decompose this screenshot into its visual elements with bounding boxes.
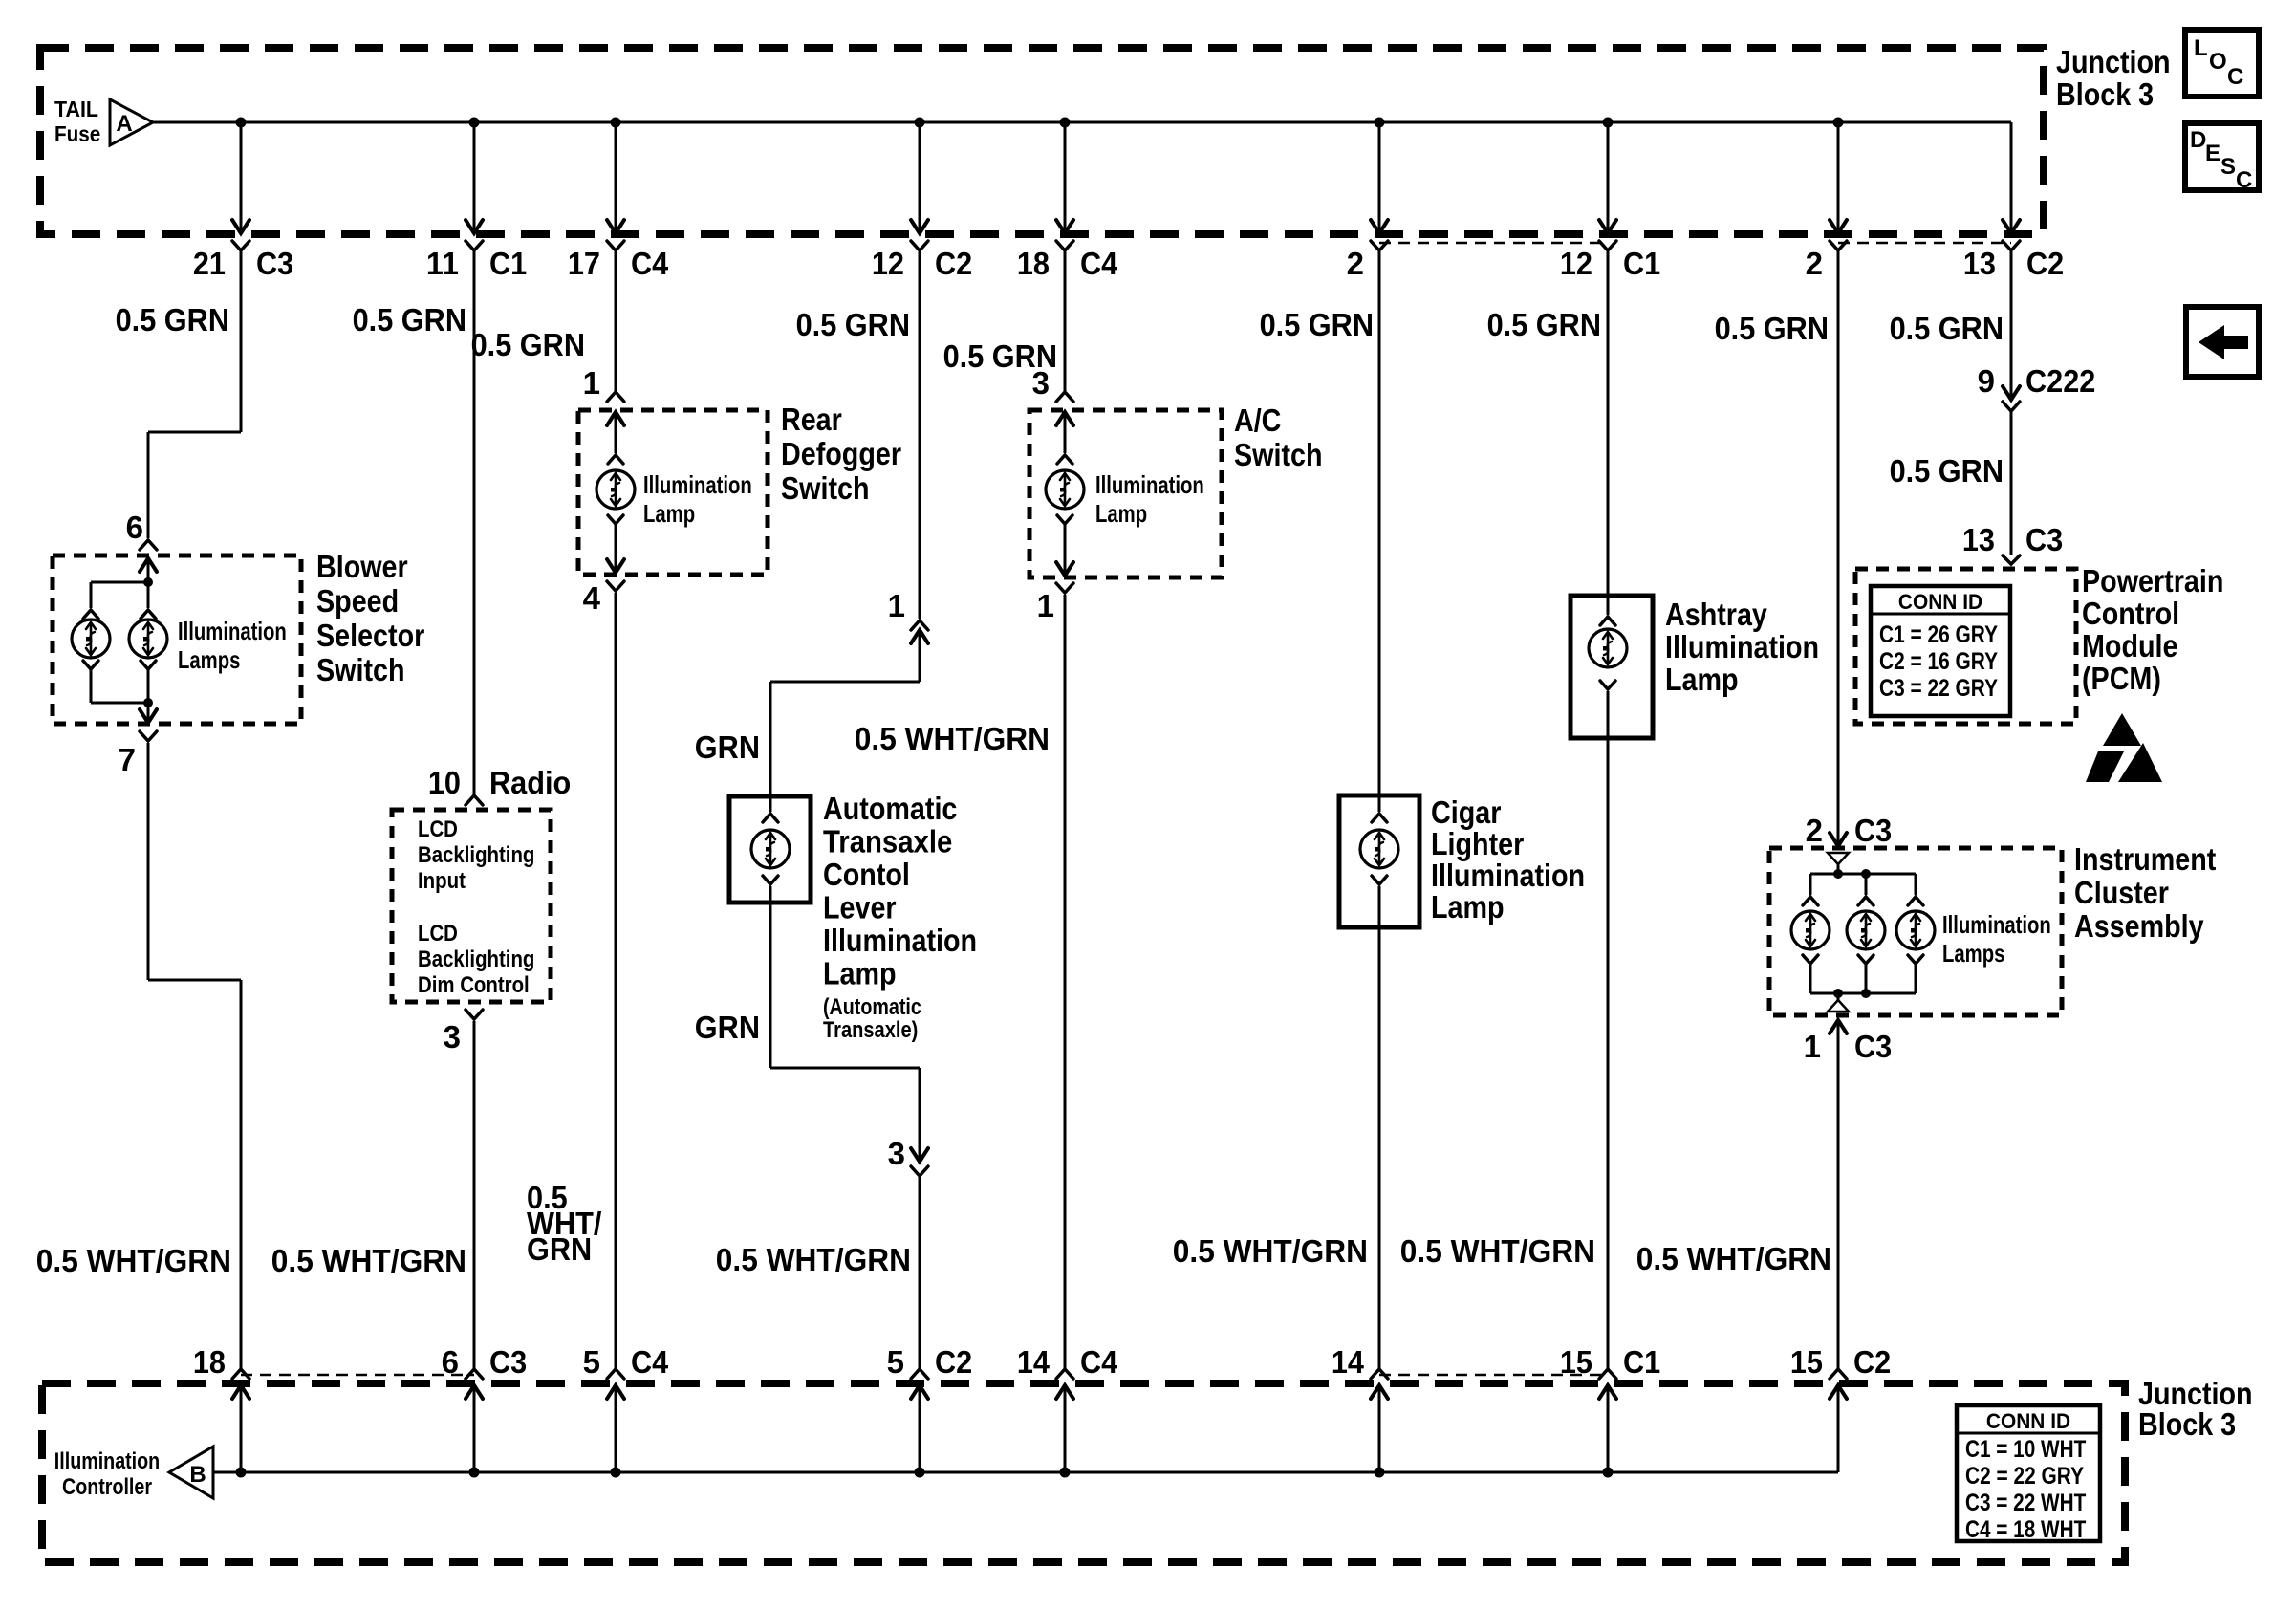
svg-text:0.5 GRN: 0.5 GRN xyxy=(353,302,466,337)
svg-text:C222: C222 xyxy=(2025,363,2095,399)
svg-text:0.5 WHT/GRN: 0.5 WHT/GRN xyxy=(1400,1233,1595,1269)
svg-text:Illumination: Illumination xyxy=(54,1448,160,1474)
svg-text:Ashtray: Ashtray xyxy=(1665,597,1767,632)
svg-text:0.5 WHT/GRN: 0.5 WHT/GRN xyxy=(1636,1241,1831,1276)
svg-text:0.5 WHT/GRN: 0.5 WHT/GRN xyxy=(271,1243,466,1278)
svg-text:C3: C3 xyxy=(1854,1029,1892,1064)
svg-text:C2: C2 xyxy=(2026,246,2064,281)
svg-text:C2 = 22 GRY: C2 = 22 GRY xyxy=(1965,1463,2084,1490)
svg-text:C4: C4 xyxy=(631,1344,669,1380)
svg-text:C2: C2 xyxy=(1853,1344,1891,1380)
svg-text:6: 6 xyxy=(126,510,143,545)
svg-text:CONN ID: CONN ID xyxy=(1898,590,1982,614)
svg-text:Transaxle): Transaxle) xyxy=(823,1017,918,1043)
svg-text:LCD: LCD xyxy=(418,921,458,946)
svg-text:C: C xyxy=(2227,64,2243,90)
svg-text:Radio: Radio xyxy=(489,765,571,800)
svg-text:Switch: Switch xyxy=(781,470,870,506)
svg-text:Dim Control: Dim Control xyxy=(418,972,530,998)
svg-text:0.5 WHT/GRN: 0.5 WHT/GRN xyxy=(855,721,1050,756)
svg-text:12: 12 xyxy=(872,246,904,281)
svg-text:A: A xyxy=(116,111,132,137)
svg-text:1: 1 xyxy=(583,365,600,401)
svg-text:C4: C4 xyxy=(1080,1344,1118,1380)
svg-text:0.5 GRN: 0.5 GRN xyxy=(796,307,910,342)
svg-text:1: 1 xyxy=(1037,588,1054,623)
svg-text:1: 1 xyxy=(1804,1029,1821,1064)
svg-text:17: 17 xyxy=(568,246,600,281)
svg-text:C1 = 26 GRY: C1 = 26 GRY xyxy=(1879,621,1998,648)
svg-text:11: 11 xyxy=(426,246,459,281)
svg-text:Lamp: Lamp xyxy=(1431,889,1505,925)
svg-text:7: 7 xyxy=(119,742,136,777)
svg-text:Automatic: Automatic xyxy=(823,791,957,826)
svg-text:Junction: Junction xyxy=(2056,44,2171,79)
svg-text:14: 14 xyxy=(1017,1344,1051,1380)
svg-text:0.5 WHT/GRN: 0.5 WHT/GRN xyxy=(1173,1233,1368,1269)
svg-text:C: C xyxy=(2236,167,2252,193)
svg-text:0.5 GRN: 0.5 GRN xyxy=(116,302,229,337)
svg-text:C3: C3 xyxy=(1854,813,1892,848)
svg-text:Cluster: Cluster xyxy=(2074,875,2169,910)
svg-text:Illumination: Illumination xyxy=(1942,910,2051,939)
svg-text:Illumination: Illumination xyxy=(1665,629,1819,664)
svg-text:C2 = 16 GRY: C2 = 16 GRY xyxy=(1879,648,1998,675)
svg-text:0.5 GRN: 0.5 GRN xyxy=(1487,307,1601,342)
svg-text:C3: C3 xyxy=(489,1344,527,1380)
svg-text:Blower: Blower xyxy=(316,549,408,584)
svg-text:15: 15 xyxy=(1560,1344,1592,1380)
svg-text:C1 = 10 WHT: C1 = 10 WHT xyxy=(1965,1436,2086,1463)
svg-text:Lamps: Lamps xyxy=(1942,939,2004,968)
svg-text:Instrument: Instrument xyxy=(2074,841,2216,877)
svg-text:18: 18 xyxy=(193,1344,226,1380)
svg-text:Switch: Switch xyxy=(1234,437,1323,472)
svg-text:D: D xyxy=(2190,127,2206,153)
svg-text:0.5 GRN: 0.5 GRN xyxy=(1260,307,1374,342)
svg-text:Controller: Controller xyxy=(62,1474,152,1500)
svg-text:Cigar: Cigar xyxy=(1431,794,1502,830)
svg-text:5: 5 xyxy=(583,1344,600,1380)
svg-text:C3: C3 xyxy=(2025,522,2063,557)
svg-text:C1: C1 xyxy=(1623,1344,1660,1380)
svg-text:0.5 GRN: 0.5 GRN xyxy=(1890,453,2004,489)
svg-text:Assembly: Assembly xyxy=(2074,908,2204,944)
svg-text:3: 3 xyxy=(1032,365,1050,401)
svg-text:Transaxle: Transaxle xyxy=(823,824,952,859)
svg-text:C4 = 18 WHT: C4 = 18 WHT xyxy=(1965,1516,2086,1543)
svg-text:L: L xyxy=(2194,35,2208,61)
svg-text:0.5 GRN: 0.5 GRN xyxy=(1890,311,2004,346)
svg-text:Illumination: Illumination xyxy=(1095,470,1204,499)
svg-text:Illumination: Illumination xyxy=(1431,858,1585,893)
svg-text:Lamp: Lamp xyxy=(643,499,695,528)
svg-text:0.5 GRN: 0.5 GRN xyxy=(1715,311,1829,346)
svg-text:6: 6 xyxy=(442,1344,459,1380)
svg-text:Lamps: Lamps xyxy=(178,645,240,674)
svg-text:0.5 WHT/GRN: 0.5 WHT/GRN xyxy=(36,1243,231,1278)
svg-text:C2: C2 xyxy=(935,1344,972,1380)
svg-text:E: E xyxy=(2205,141,2220,166)
svg-text:TAIL: TAIL xyxy=(54,97,98,121)
svg-text:C3: C3 xyxy=(256,246,293,281)
svg-text:S: S xyxy=(2220,154,2236,180)
svg-text:9: 9 xyxy=(1978,363,1995,399)
svg-text:Lever: Lever xyxy=(823,890,897,925)
svg-text:1: 1 xyxy=(888,588,905,623)
svg-text:(PCM): (PCM) xyxy=(2082,661,2161,696)
svg-text:Fuse: Fuse xyxy=(54,121,100,146)
svg-text:15: 15 xyxy=(1790,1344,1823,1380)
svg-text:O: O xyxy=(2209,49,2227,75)
svg-text:GRN: GRN xyxy=(695,729,760,765)
svg-text:Defogger: Defogger xyxy=(781,436,901,471)
svg-text:GRN: GRN xyxy=(695,1010,760,1045)
svg-text:2: 2 xyxy=(1347,246,1364,281)
svg-text:CONN ID: CONN ID xyxy=(1986,1409,2070,1433)
svg-text:Powertrain: Powertrain xyxy=(2082,563,2223,598)
svg-text:C2: C2 xyxy=(935,246,972,281)
svg-text:GRN: GRN xyxy=(527,1231,592,1267)
svg-text:(Automatic: (Automatic xyxy=(823,994,921,1020)
svg-text:3: 3 xyxy=(888,1136,905,1171)
svg-text:Contol: Contol xyxy=(823,857,910,892)
svg-text:Backlighting: Backlighting xyxy=(418,842,534,868)
svg-text:Selector: Selector xyxy=(316,618,424,653)
svg-text:A/C: A/C xyxy=(1234,402,1281,438)
svg-text:Control: Control xyxy=(2082,596,2179,631)
svg-text:Lighter: Lighter xyxy=(1431,826,1524,861)
svg-text:B: B xyxy=(189,1462,206,1488)
svg-text:Speed: Speed xyxy=(316,583,399,619)
svg-text:C1: C1 xyxy=(1623,246,1660,281)
svg-text:C3 = 22 GRY: C3 = 22 GRY xyxy=(1879,675,1998,702)
svg-text:21: 21 xyxy=(193,246,226,281)
svg-text:13: 13 xyxy=(1962,522,1995,557)
svg-text:10: 10 xyxy=(428,765,461,800)
svg-text:Block 3: Block 3 xyxy=(2138,1406,2236,1442)
svg-text:C4: C4 xyxy=(1080,246,1118,281)
svg-text:Block 3: Block 3 xyxy=(2056,76,2154,112)
svg-text:5: 5 xyxy=(887,1344,904,1380)
svg-text:3: 3 xyxy=(444,1019,461,1055)
svg-text:18: 18 xyxy=(1017,246,1050,281)
svg-text:Lamp: Lamp xyxy=(1095,499,1147,528)
svg-text:C1: C1 xyxy=(489,246,527,281)
svg-text:Input: Input xyxy=(418,868,466,894)
svg-text:Switch: Switch xyxy=(316,652,405,687)
svg-text:4: 4 xyxy=(583,580,601,616)
svg-text:0.5 WHT/GRN: 0.5 WHT/GRN xyxy=(716,1242,911,1277)
svg-text:12: 12 xyxy=(1560,246,1592,281)
svg-text:Lamp: Lamp xyxy=(1665,662,1739,697)
svg-text:Backlighting: Backlighting xyxy=(418,946,534,972)
svg-text:0.5 GRN: 0.5 GRN xyxy=(471,327,585,362)
svg-text:13: 13 xyxy=(1963,246,1996,281)
svg-text:2: 2 xyxy=(1806,246,1823,281)
svg-text:Illumination: Illumination xyxy=(823,923,977,958)
svg-text:2: 2 xyxy=(1806,813,1823,848)
svg-text:14: 14 xyxy=(1332,1344,1365,1380)
svg-text:C4: C4 xyxy=(631,246,669,281)
svg-text:Lamp: Lamp xyxy=(823,956,897,991)
svg-text:C3 = 22 WHT: C3 = 22 WHT xyxy=(1965,1490,2086,1516)
svg-text:Rear: Rear xyxy=(781,402,842,437)
svg-text:Illumination: Illumination xyxy=(178,617,287,645)
svg-text:Module: Module xyxy=(2082,628,2178,664)
svg-text:LCD: LCD xyxy=(418,816,458,842)
svg-text:Illumination: Illumination xyxy=(643,470,752,499)
